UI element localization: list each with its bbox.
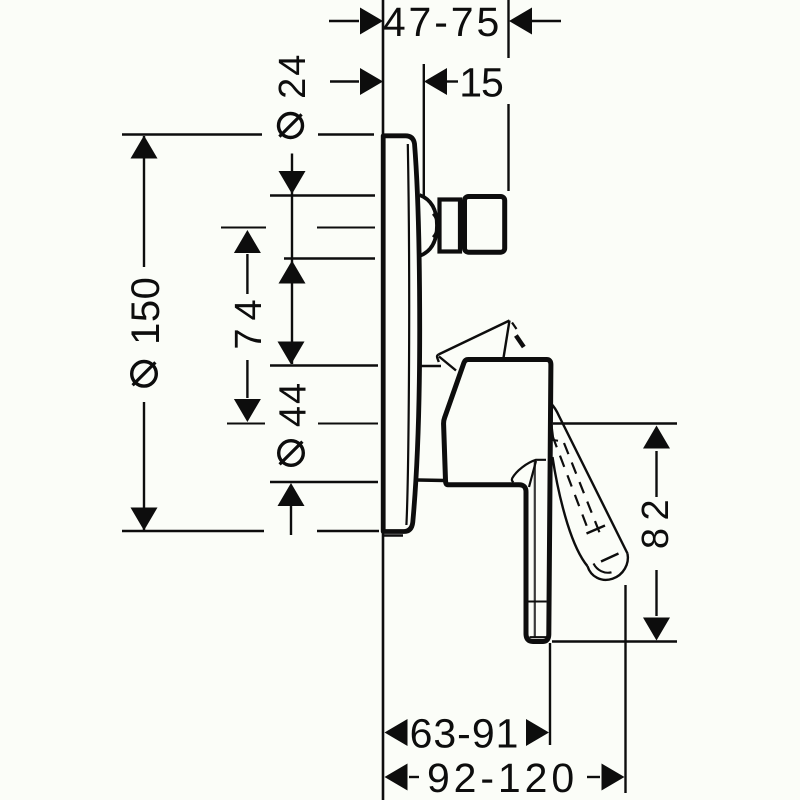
- knob neck: [440, 200, 461, 252]
- svg-text:24: 24: [272, 53, 314, 99]
- dimension 82 stem: [655, 451, 657, 497]
- phantom lever up: tip cap: [437, 355, 439, 363]
- knob centerline: [221, 226, 266, 228]
- dimension O44 lower stem: [290, 505, 292, 535]
- dimension O44 diameter symbol: [279, 441, 304, 466]
- phantom lever down: dashed line A: [553, 436, 590, 532]
- escutcheon chamfer line: [406, 144, 409, 525]
- body slant line: [529, 461, 536, 487]
- dimension 82 bottom arrow: [643, 618, 670, 641]
- svg-text:92-120: 92-120: [427, 755, 578, 800]
- phantom lever up: lower edge: [439, 357, 456, 371]
- dimension O150 stem: [143, 136, 145, 267]
- dimension O44 bottom extension line: [270, 481, 378, 483]
- dimension 15 dim line tails: [330, 80, 359, 82]
- phantom lever up: right edge: [503, 321, 510, 362]
- dimension 74 bottom arrow: [234, 399, 261, 422]
- phantom lever down: tip cap: [588, 554, 628, 580]
- dimension 74 stem: [246, 254, 248, 294]
- dimension O44 top extension line: [270, 364, 378, 366]
- body fillet curve: [512, 460, 546, 483]
- plate bottom lower segment: [384, 534, 403, 536]
- dimension 82 top arrow: [643, 426, 670, 449]
- svg-text:150: 150: [124, 277, 168, 345]
- phantom lever down: cross tick 2: [601, 554, 619, 562]
- mixer body with lever (solid): [444, 360, 551, 642]
- lever inner gray line: [534, 462, 536, 637]
- dimension O44 bottom arrow (outside, pointing up): [278, 483, 305, 506]
- lever tip inner line: [530, 636, 547, 638]
- svg-text:44: 44: [273, 381, 315, 427]
- knob head: [465, 197, 505, 253]
- phantom lever up: dash 1: [512, 323, 517, 330]
- dimension 47-75 dim line tails: [329, 20, 359, 22]
- dimension O24 diameter symbol: [279, 114, 303, 138]
- extension line x=550 (lever tip): [549, 643, 551, 745]
- dimension O24 bottom arrow (outside, pointing up): [279, 261, 306, 284]
- dimension 63-91 left arrow: [385, 719, 408, 746]
- dimension O150 diameter symbol: [132, 362, 157, 387]
- phantom lever down: left edge: [553, 457, 588, 566]
- dimension 63-91 right arrow: [526, 719, 549, 746]
- svg-text:63-91: 63-91: [410, 711, 520, 757]
- svg-text:74: 74: [228, 291, 270, 349]
- phantom lever down: dashed line B: [564, 443, 603, 540]
- dimension O24 top extension line: [270, 194, 375, 196]
- extension line x=508.5 (knob face): [507, 0, 509, 58]
- cylinder top edge between plate and body: [414, 365, 441, 368]
- dimension O150 bottom extension line: [122, 530, 264, 532]
- phantom lever down: left edge top: [551, 418, 554, 439]
- dimension O150 top arrow: [131, 136, 158, 159]
- dimension O24 stem: [291, 154, 293, 365]
- dimension 74 top arrow: [234, 230, 261, 253]
- dimension O24 bottom extension line: [284, 257, 375, 259]
- cylinder bottom edge between plate and body: [418, 478, 445, 482]
- handle centerline: [227, 422, 265, 424]
- dimension 82 top extension line: [553, 422, 677, 424]
- phantom lever up: dash 2: [516, 336, 524, 348]
- extension line x=423.8 (plate front face): [423, 64, 425, 210]
- knob dome: [420, 195, 438, 256]
- dimension 92-120 right arrow: [602, 764, 625, 791]
- dimension 15 left arrow: [360, 68, 383, 95]
- dimension 92-120 tails: [409, 776, 419, 778]
- svg-text:15: 15: [459, 60, 503, 106]
- phantom lever down: right edge with hook: [551, 404, 628, 554]
- dimension O150 bottom arrow: [131, 508, 158, 531]
- dimension 15 right arrow: [424, 68, 447, 95]
- dimension 82 bottom extension line: [552, 640, 677, 642]
- dimension O44 top arrow (outside, pointing down): [278, 342, 305, 365]
- extension line x=625.5 (phantom tip): [624, 585, 626, 793]
- phantom lever up: top edge to apex: [439, 321, 510, 355]
- knob dome inner arc: [433, 214, 437, 237]
- dimension O150 top extension line: [122, 133, 262, 135]
- phantom lever down: left edge connector: [552, 440, 559, 441]
- dimension 47-75 left arrow: [360, 8, 383, 35]
- dimension 47-75 right arrow: [509, 8, 532, 35]
- svg-text:47-75: 47-75: [383, 0, 502, 45]
- lever cross line: [528, 600, 547, 602]
- escutcheon plate: [383, 136, 420, 532]
- phantom lever down: cross tick 1: [587, 526, 606, 534]
- svg-text:82: 82: [635, 492, 677, 549]
- wall line: [382, 0, 385, 800]
- phantom lever down: tip inner line: [594, 564, 612, 573]
- dimension 92-120 left arrow: [385, 764, 408, 791]
- dimension O24 top arrow (outside, pointing down): [279, 171, 306, 194]
